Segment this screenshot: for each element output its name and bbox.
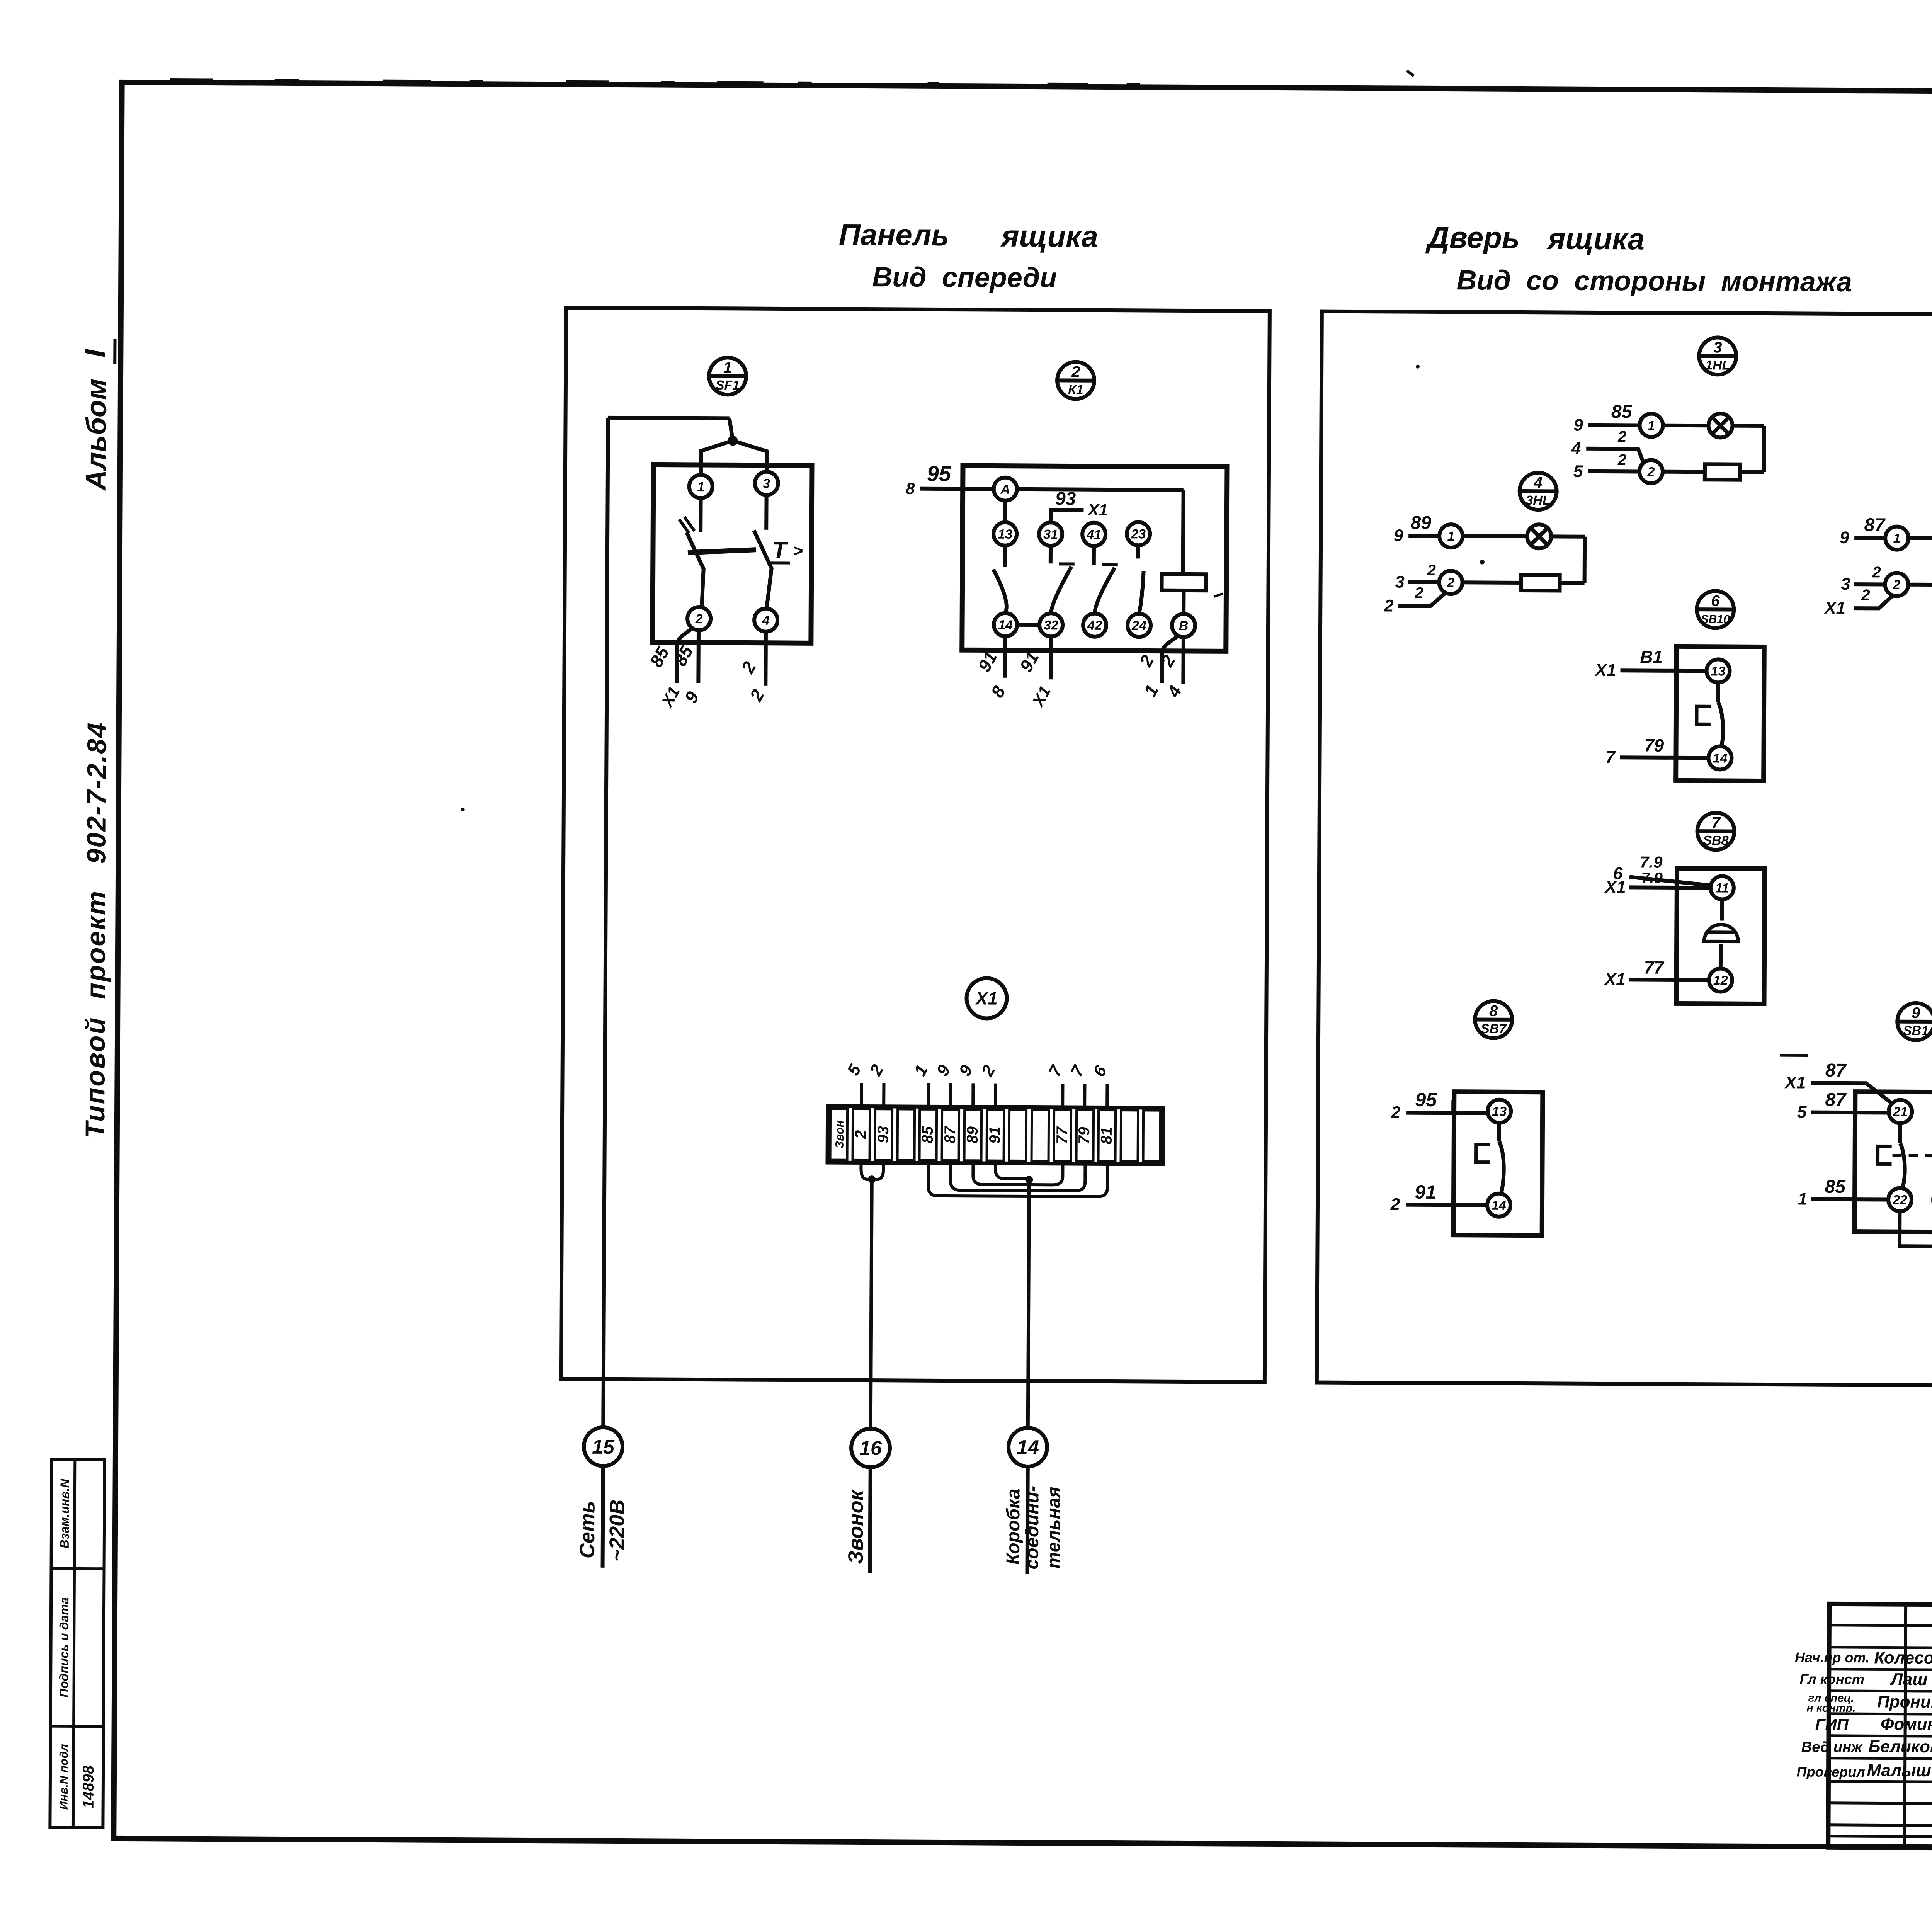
svg-text:42: 42 [1087, 618, 1102, 633]
svg-text:23: 23 [1131, 527, 1146, 541]
svg-text:13: 13 [998, 527, 1012, 542]
svg-text:В: В [1179, 619, 1189, 633]
svg-text:1: 1 [1648, 418, 1655, 433]
svg-text:Фомин: Фомин [1881, 1715, 1932, 1734]
svg-text:3: 3 [1713, 339, 1722, 356]
svg-text:77: 77 [1644, 958, 1665, 978]
svg-text:1HL: 1HL [1705, 358, 1730, 373]
svg-text:Проверил: Проверил [1796, 1764, 1865, 1780]
svg-text:15: 15 [592, 1436, 615, 1458]
svg-text:1: 1 [1140, 681, 1162, 699]
svg-text:4: 4 [762, 613, 770, 628]
svg-text:14: 14 [1713, 751, 1727, 765]
svg-text:2: 2 [1135, 651, 1158, 670]
svg-text:Типовой проект 902-7-2.84: Типовой проект 902-7-2.84 [80, 721, 112, 1139]
svg-text:X1: X1 [1029, 683, 1054, 710]
svg-text:87: 87 [1864, 515, 1886, 535]
svg-text:2: 2 [1617, 428, 1626, 445]
svg-text:9: 9 [955, 1062, 976, 1079]
svg-text:Колесов: Колесов [1874, 1648, 1932, 1667]
svg-text:7: 7 [1067, 1061, 1088, 1080]
svg-text:32: 32 [1044, 618, 1058, 633]
svg-text:>: > [793, 541, 803, 560]
svg-text:X1: X1 [658, 684, 684, 710]
svg-text:93: 93 [1055, 488, 1076, 509]
svg-text:X1: X1 [1604, 878, 1626, 896]
svg-text:85: 85 [919, 1126, 936, 1143]
svg-text:85: 85 [1825, 1177, 1846, 1197]
svg-text:3: 3 [1395, 572, 1405, 591]
svg-text:X1: X1 [1604, 970, 1626, 989]
svg-text:Звон: Звон [833, 1120, 846, 1148]
svg-text:7.9: 7.9 [1640, 853, 1663, 871]
svg-text:87: 87 [942, 1126, 959, 1143]
svg-text:22: 22 [1892, 1193, 1907, 1208]
svg-text:В1: В1 [1640, 646, 1663, 667]
svg-text:13: 13 [1711, 664, 1726, 679]
svg-text:Т: Т [772, 537, 789, 564]
svg-text:2: 2 [1893, 578, 1900, 592]
svg-text:2: 2 [1071, 364, 1080, 381]
svg-text:Панель: Панель [839, 218, 949, 252]
svg-text:7: 7 [1045, 1061, 1066, 1080]
svg-text:3: 3 [763, 476, 770, 491]
svg-text:~220В: ~220В [605, 1500, 629, 1562]
svg-text:5: 5 [1797, 1102, 1807, 1121]
svg-text:3: 3 [1841, 575, 1850, 594]
svg-text:ящика: ящика [1000, 219, 1098, 253]
svg-text:Малышев: Малышев [1867, 1761, 1932, 1780]
svg-text:2: 2 [1647, 465, 1655, 480]
svg-text:А: А [1000, 482, 1010, 497]
svg-text:6: 6 [1711, 592, 1720, 609]
svg-text:SB8: SB8 [1703, 833, 1728, 848]
svg-text:9: 9 [1840, 528, 1849, 547]
svg-text:89: 89 [1410, 513, 1431, 533]
svg-text:2: 2 [1414, 585, 1423, 602]
svg-text:16: 16 [859, 1437, 882, 1459]
svg-text:41: 41 [1086, 527, 1101, 542]
svg-text:1: 1 [1798, 1189, 1808, 1208]
svg-text:X1: X1 [1594, 661, 1616, 680]
svg-text:11: 11 [1715, 881, 1729, 895]
svg-text:8: 8 [906, 480, 915, 498]
svg-text:2: 2 [746, 686, 769, 704]
svg-text:Сеть: Сеть [576, 1501, 599, 1558]
svg-text:Подпись и дата: Подпись и дата [57, 1597, 71, 1698]
svg-text:Звонок: Звонок [844, 1489, 868, 1564]
svg-text:9: 9 [1394, 526, 1403, 545]
svg-text:Вид со стороны монтажа: Вид со стороны монтажа [1456, 265, 1852, 298]
svg-text:14: 14 [1492, 1198, 1506, 1213]
svg-text:89: 89 [964, 1126, 981, 1143]
svg-text:3HL: 3HL [1526, 493, 1550, 508]
svg-text:85: 85 [670, 642, 697, 669]
svg-text:14: 14 [1017, 1436, 1039, 1459]
svg-text:Альбом: Альбом [80, 379, 112, 492]
svg-text:2: 2 [866, 1061, 887, 1079]
svg-text:21: 21 [1893, 1105, 1908, 1119]
svg-text:4: 4 [1534, 474, 1543, 491]
svg-text:Вид спереди: Вид спереди [872, 262, 1057, 293]
svg-text:2: 2 [1861, 587, 1870, 604]
svg-text:14: 14 [998, 618, 1013, 633]
svg-text:79: 79 [1076, 1127, 1093, 1144]
svg-text:85: 85 [1611, 401, 1633, 422]
svg-text:7.9: 7.9 [1641, 869, 1663, 886]
svg-text:н контр.: н контр. [1806, 1702, 1855, 1715]
svg-text:тельная: тельная [1044, 1487, 1065, 1568]
svg-text:1: 1 [1447, 529, 1455, 544]
svg-text:8: 8 [1489, 1003, 1498, 1020]
svg-text:7: 7 [1711, 814, 1721, 831]
svg-text:9: 9 [933, 1061, 954, 1079]
svg-text:2: 2 [737, 658, 760, 677]
svg-text:5: 5 [844, 1061, 865, 1078]
svg-text:X1: X1 [1823, 599, 1845, 617]
svg-text:2: 2 [1156, 651, 1179, 670]
svg-text:9: 9 [1573, 416, 1583, 435]
svg-text:Лаш: Лаш [1890, 1670, 1928, 1689]
svg-text:1: 1 [1893, 531, 1901, 546]
svg-text:Вед инж: Вед инж [1801, 1739, 1863, 1755]
svg-text:4: 4 [1163, 682, 1185, 701]
svg-text:SF1: SF1 [716, 378, 740, 393]
svg-text:Коробка: Коробка [1003, 1488, 1024, 1565]
svg-text:соедини-: соедини- [1022, 1486, 1043, 1570]
svg-text:2: 2 [1427, 562, 1436, 579]
svg-text:SB10: SB10 [1701, 613, 1730, 626]
svg-text:Инв.N подл: Инв.N подл [58, 1744, 71, 1810]
svg-text:2: 2 [1447, 575, 1454, 590]
svg-text:87: 87 [1825, 1090, 1847, 1110]
svg-text:Взам.инв.N: Взам.инв.N [58, 1478, 72, 1548]
svg-text:2: 2 [1390, 1195, 1400, 1214]
svg-text:1: 1 [910, 1062, 932, 1079]
svg-text:79: 79 [1644, 735, 1664, 755]
svg-text:Дверь: Дверь [1425, 220, 1520, 255]
svg-text:7: 7 [1605, 748, 1616, 767]
svg-text:Нач.пр от.: Нач.пр от. [1795, 1649, 1869, 1665]
svg-text:Беликова: Беликова [1868, 1737, 1932, 1756]
svg-text:2: 2 [695, 612, 703, 626]
svg-text:95: 95 [1415, 1089, 1437, 1111]
svg-text:К1: К1 [1068, 382, 1083, 397]
svg-text:ГИП: ГИП [1815, 1716, 1849, 1734]
svg-text:1: 1 [723, 359, 732, 376]
svg-text:81: 81 [1098, 1127, 1115, 1145]
svg-text:95: 95 [927, 461, 951, 486]
svg-text:X1: X1 [1087, 501, 1108, 519]
svg-text:2: 2 [1872, 564, 1881, 581]
svg-text:Гл конст: Гл конст [1800, 1671, 1864, 1687]
svg-text:SB7: SB7 [1481, 1022, 1507, 1036]
svg-text:Пронин: Пронин [1877, 1692, 1932, 1711]
svg-text:2: 2 [1391, 1103, 1401, 1122]
svg-text:1: 1 [697, 480, 704, 494]
svg-text:2: 2 [1384, 596, 1394, 615]
svg-text:85: 85 [646, 643, 673, 670]
svg-text:4: 4 [1571, 439, 1581, 458]
svg-text:SB1: SB1 [1903, 1024, 1929, 1038]
svg-text:2: 2 [852, 1130, 869, 1139]
svg-text:5: 5 [1573, 462, 1583, 481]
svg-text:9: 9 [1912, 1005, 1920, 1022]
svg-text:Х1: Х1 [975, 988, 998, 1008]
svg-text:2: 2 [978, 1062, 999, 1080]
svg-text:I: I [79, 349, 112, 357]
svg-text:X1: X1 [1784, 1073, 1806, 1092]
svg-text:93: 93 [875, 1126, 892, 1143]
svg-text:6: 6 [1089, 1062, 1111, 1080]
svg-text:87: 87 [1825, 1060, 1847, 1081]
svg-text:12: 12 [1713, 973, 1728, 988]
svg-text:31: 31 [1043, 527, 1058, 542]
svg-text:91: 91 [986, 1126, 1003, 1144]
svg-text:2: 2 [1617, 451, 1626, 468]
svg-text:8: 8 [987, 682, 1009, 701]
svg-text:9: 9 [680, 688, 703, 706]
svg-text:24: 24 [1131, 618, 1146, 633]
svg-text:ящика: ящика [1546, 221, 1645, 256]
svg-text:14898: 14898 [80, 1765, 97, 1808]
svg-text:77: 77 [1054, 1126, 1071, 1144]
svg-text:13: 13 [1492, 1104, 1507, 1119]
svg-text:91: 91 [1415, 1181, 1436, 1203]
